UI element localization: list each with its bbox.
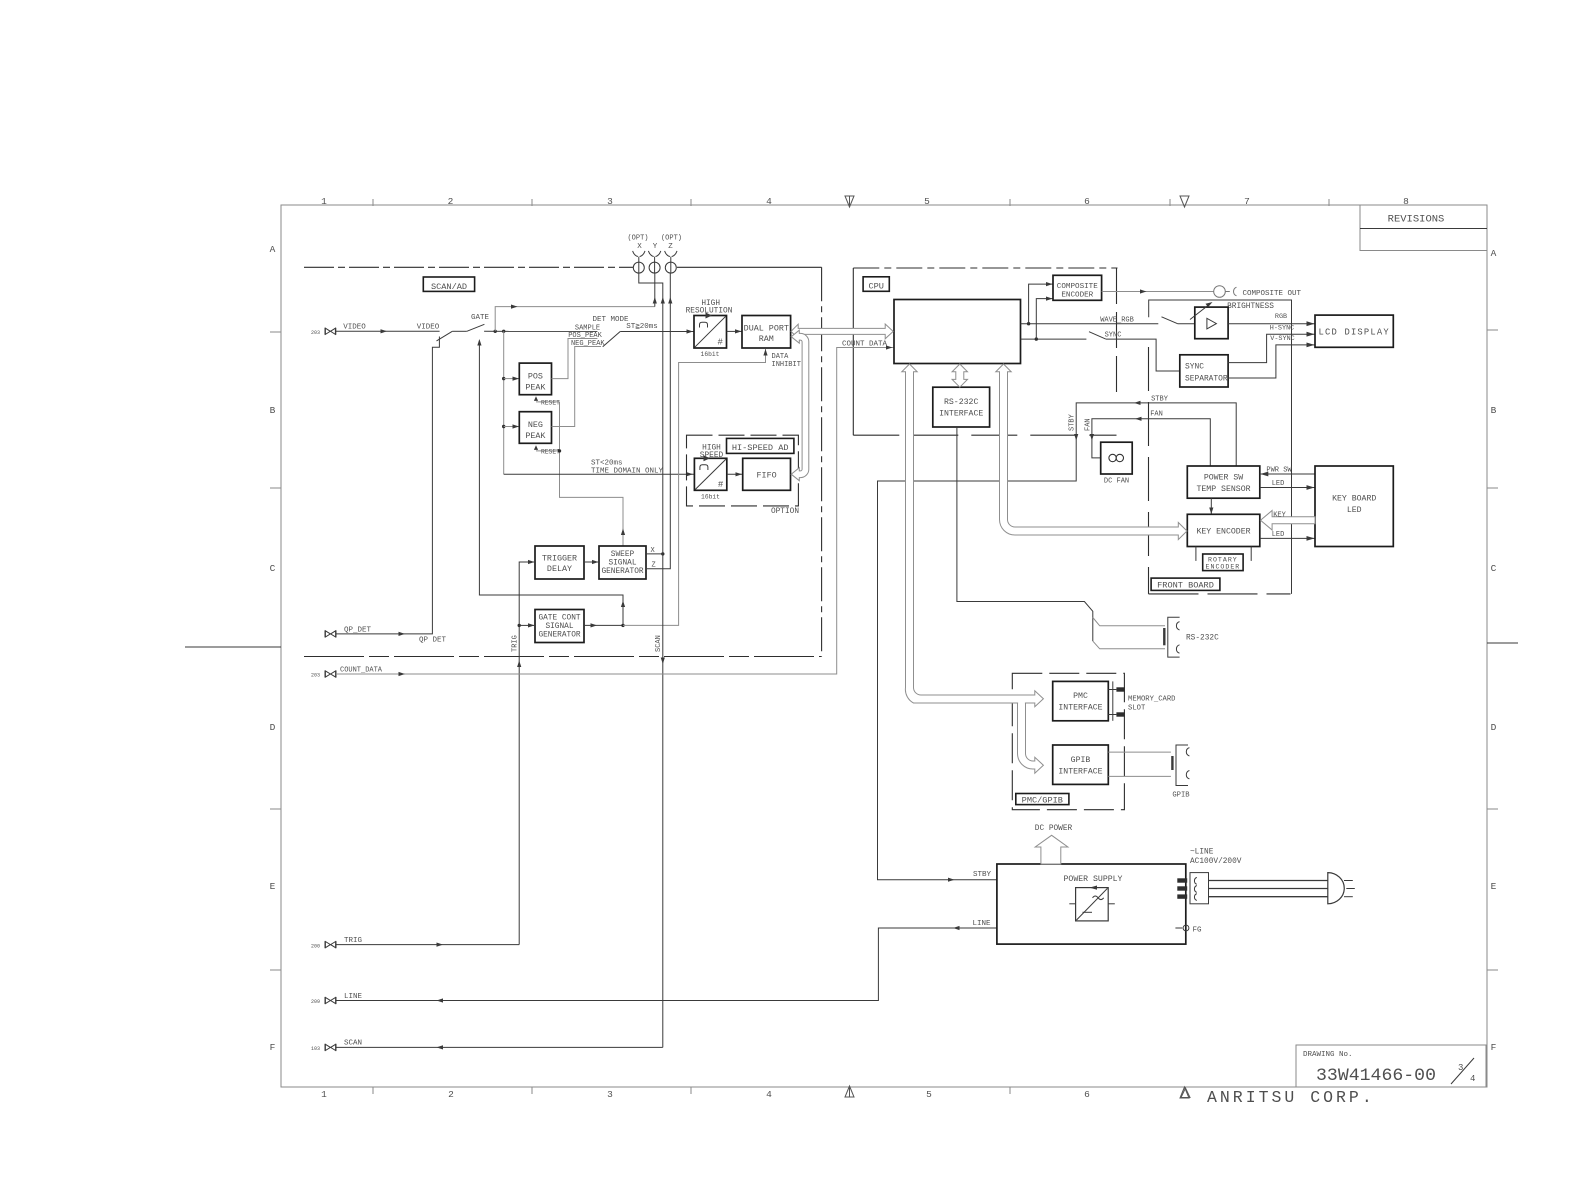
svg-text:LED: LED <box>1272 480 1285 488</box>
switch S4 WAVE_RGB <box>1162 317 1178 324</box>
svg-text:SEPARATOR: SEPARATOR <box>1185 374 1228 383</box>
svg-text:C: C <box>1491 563 1497 574</box>
switch S1 video/qp-det blade <box>437 331 453 341</box>
svg-text:4: 4 <box>766 196 772 207</box>
svg-text:3: 3 <box>607 1089 613 1100</box>
memory card slot pad upper <box>1116 687 1125 691</box>
block video amp <box>1195 307 1228 339</box>
svg-text:GPIB: GPIB <box>1172 792 1190 800</box>
drawing frame border <box>281 205 1487 1087</box>
block KEY BOARD LED <box>1315 466 1393 547</box>
svg-text:DELAY: DELAY <box>547 564 572 574</box>
svg-text:Z: Z <box>652 562 656 570</box>
svg-text:NEG_PEAK: NEG_PEAK <box>571 340 605 348</box>
svg-text:QP DET: QP DET <box>419 637 447 645</box>
frame row ticks right <box>1487 330 1498 488</box>
wire data inhibit <box>623 349 766 625</box>
svg-text:RESET: RESET <box>541 399 560 406</box>
OPTION region boundary <box>687 435 799 506</box>
wire switch link <box>452 330 467 332</box>
connector J LINE <box>311 997 336 1005</box>
frame column numbers bottom <box>321 1089 1090 1100</box>
wire detector main line <box>484 330 597 332</box>
svg-text:COMPOSITE: COMPOSITE <box>1057 283 1098 291</box>
svg-text:POWER SW: POWER SW <box>1204 474 1243 483</box>
block PMC INTERFACE <box>1053 681 1109 720</box>
title block <box>1296 1045 1486 1087</box>
PMC/GPIB region boundary <box>1012 673 1124 809</box>
svg-text:MEMORY_CARD: MEMORY_CARD <box>1128 696 1175 704</box>
wire X output <box>646 553 663 555</box>
hollow arrow KEY keyboard to key encoder <box>1261 511 1316 531</box>
svg-text:DRAWING No.: DRAWING No. <box>1303 1051 1353 1059</box>
svg-text:GENERATOR: GENERATOR <box>538 631 580 639</box>
svg-text:SWEEP: SWEEP <box>611 551 635 559</box>
AC inlet pads <box>1177 878 1187 882</box>
wire time domain line <box>504 473 694 475</box>
wire composite out <box>1102 291 1214 293</box>
AC-DC converter symbol <box>1069 886 1115 921</box>
svg-text:E: E <box>1491 881 1497 892</box>
memory card slot stub lower <box>1108 714 1116 716</box>
wire H-SYNC <box>1228 334 1315 362</box>
SCAN/AD region boundary right <box>821 267 823 656</box>
svg-text:PMC: PMC <box>1073 692 1088 701</box>
block CPU <box>894 300 1021 364</box>
wire X/SCAN riser <box>639 273 663 1047</box>
wire RS-232C to connector <box>957 427 1093 641</box>
wire to composite encoder input1 <box>1029 284 1053 324</box>
svg-text:REVISIONS: REVISIONS <box>1388 214 1445 226</box>
connector J TRIG <box>311 941 336 949</box>
FG terminal <box>1175 925 1202 934</box>
brightness control circuit <box>1149 300 1292 594</box>
connector Y <box>648 243 660 273</box>
svg-text:RESET: RESET <box>541 448 560 455</box>
SCAN/AD region boundary top <box>304 266 633 268</box>
svg-text:TIME DOMAIN ONLY: TIME DOMAIN ONLY <box>591 467 664 475</box>
block DUAL PORT RAM <box>742 316 791 349</box>
svg-text:VIDEO: VIDEO <box>417 323 440 331</box>
bus CPU to PMC/GPIB <box>902 364 1044 773</box>
svg-text:200: 200 <box>311 943 320 949</box>
frame column ticks top <box>373 199 1329 206</box>
switch S2 gate blade <box>467 324 485 331</box>
svg-text:TRIG: TRIG <box>512 635 520 652</box>
svg-text:COUNT DATA: COUNT DATA <box>842 340 888 348</box>
switch S3 det mode blade <box>603 332 621 347</box>
AC line wires <box>1209 881 1328 897</box>
wire detector select vertical <box>503 331 505 474</box>
wire gate cont output <box>584 624 623 626</box>
svg-text:(OPT): (OPT) <box>627 235 648 243</box>
svg-text:209: 209 <box>311 999 320 1005</box>
svg-text:D: D <box>270 722 276 733</box>
svg-text:H-SYNC: H-SYNC <box>1270 324 1294 332</box>
block KEY ENCODER <box>1187 514 1260 546</box>
svg-text:AC100V/200V: AC100V/200V <box>1190 858 1242 866</box>
svg-text:ENCODER: ENCODER <box>1061 292 1093 300</box>
frame row letters left <box>270 244 276 1053</box>
svg-text:F: F <box>1491 1042 1497 1053</box>
svg-text:ANRITSU CORP.: ANRITSU CORP. <box>1207 1088 1375 1107</box>
wire AD2 to FIFO <box>727 473 743 475</box>
CPU region boundary <box>852 268 854 435</box>
svg-text:FAN: FAN <box>1085 418 1093 431</box>
svg-text:F: F <box>270 1042 276 1053</box>
svg-text:SCAN/AD: SCAN/AD <box>431 282 467 292</box>
wire neg peak input <box>504 426 520 428</box>
node gate cont output junction <box>621 624 624 627</box>
frame fold mark bottom center <box>845 1086 854 1097</box>
svg-text:SPEED: SPEED <box>700 452 724 460</box>
svg-text:SYNC: SYNC <box>1105 332 1122 340</box>
wire trig to gate cont <box>519 624 535 626</box>
svg-text:KEY BOARD: KEY BOARD <box>1332 494 1376 503</box>
svg-text:1: 1 <box>321 196 327 207</box>
registration triangle by company name <box>1181 1088 1190 1098</box>
svg-text:COUNT_DATA: COUNT_DATA <box>340 666 383 674</box>
svg-text:RS-232C: RS-232C <box>1186 635 1219 643</box>
svg-text:SIGNAL: SIGNAL <box>545 623 573 631</box>
wire pos peak input <box>504 378 520 380</box>
node video junction <box>494 330 497 333</box>
block TRIGGER DELAY <box>535 546 584 579</box>
SCAN/AD section label box <box>423 277 474 292</box>
block FIFO <box>743 458 791 490</box>
svg-text:KEY: KEY <box>1273 511 1286 519</box>
block SYNC SEPARATOR <box>1180 355 1228 387</box>
wire AD1 input <box>620 331 694 333</box>
wire pos peak reset stub <box>536 401 560 403</box>
FRONT BOARD region boundary <box>1148 347 1150 594</box>
svg-text:CPU: CPU <box>868 281 883 291</box>
wire neg peak output to contact <box>552 347 602 427</box>
svg-text:HI-SPEED AD: HI-SPEED AD <box>732 443 789 453</box>
svg-text:OPTION: OPTION <box>771 508 799 516</box>
wire sync to separator <box>1106 339 1180 371</box>
CPU section label box <box>863 277 889 292</box>
svg-text:ST<20ms: ST<20ms <box>591 460 623 468</box>
svg-text:16bit: 16bit <box>701 494 720 501</box>
frame fold mark top right <box>1180 196 1189 207</box>
memory card slot bracket <box>1112 681 1114 720</box>
svg-text:SYNC: SYNC <box>1185 362 1204 371</box>
frame column numbers top <box>321 196 1409 207</box>
svg-text:DET MODE: DET MODE <box>592 316 629 324</box>
block SWEEP SIGNAL GENERATOR <box>599 546 646 579</box>
svg-text:PWR SW: PWR SW <box>1266 467 1292 475</box>
svg-text:INHIBIT: INHIBIT <box>772 361 801 369</box>
svg-text:ENCODER: ENCODER <box>1206 564 1241 571</box>
svg-text:103: 103 <box>311 1046 320 1052</box>
svg-text:STBY: STBY <box>973 871 992 879</box>
svg-text:A: A <box>270 244 276 255</box>
svg-text:SIGNAL: SIGNAL <box>608 559 636 567</box>
svg-text:FIFO: FIFO <box>757 471 777 481</box>
frame row letters right <box>1491 248 1497 1053</box>
svg-text:LINE: LINE <box>972 920 991 928</box>
block NEG PEAK <box>519 412 551 444</box>
block GPIB INTERFACE <box>1053 745 1109 784</box>
bus CPU to KEY ENCODER <box>996 364 1187 540</box>
node trig to gate cont <box>518 624 521 627</box>
revisions box <box>1360 205 1487 251</box>
node X scan junction <box>661 552 664 555</box>
svg-text:LINE: LINE <box>344 993 363 1001</box>
svg-text:STBY: STBY <box>1069 413 1077 431</box>
wire STBY distribution <box>878 403 1237 880</box>
svg-text:COMPOSITE OUT: COMPOSITE OUT <box>1243 290 1302 298</box>
svg-text:~LINE: ~LINE <box>1190 849 1214 857</box>
connector J COUNT_DATA <box>311 671 336 679</box>
svg-text:(OPT): (OPT) <box>661 235 682 243</box>
AC plug <box>1328 873 1355 904</box>
node wave rgb junction <box>1027 322 1030 325</box>
svg-text:5: 5 <box>924 196 930 207</box>
svg-text:TRIGGER: TRIGGER <box>542 554 577 564</box>
block LCD DISPLAY <box>1315 315 1393 347</box>
wire COUNT_DATA bus <box>336 348 894 675</box>
svg-text:INTERFACE: INTERFACE <box>939 410 983 419</box>
connector X option <box>627 235 648 274</box>
node neg peak tap <box>502 425 505 428</box>
svg-text:RESOLUTION: RESOLUTION <box>686 307 733 315</box>
wire SYNC from CPU <box>1021 338 1087 340</box>
svg-text:3: 3 <box>607 196 613 207</box>
wire GPIB lower <box>1108 775 1171 777</box>
wire QP_DET input <box>336 337 439 634</box>
frame row ticks left <box>270 332 281 488</box>
SCAN/AD region boundary bottom <box>304 656 822 658</box>
wire GPIB upper <box>1108 751 1171 753</box>
switch S5 SYNC <box>1089 332 1106 339</box>
node det junction <box>502 330 505 333</box>
wire switch to amp <box>1178 323 1195 325</box>
wire LED upper <box>1260 487 1315 489</box>
HI-SPEED AD label box <box>727 438 794 453</box>
svg-text:PEAK: PEAK <box>525 383 546 393</box>
svg-text:FAN: FAN <box>1150 410 1163 418</box>
wire V-SYNC <box>1228 345 1315 378</box>
svg-text:POS: POS <box>528 372 543 382</box>
connector J SCAN <box>311 1044 336 1052</box>
connector J QP_DET <box>325 630 336 637</box>
svg-text:D: D <box>1491 722 1497 733</box>
wire trigger delay to ssg <box>584 561 599 563</box>
bus CPU to DUAL PORT RAM <box>791 324 893 339</box>
svg-text:INTERFACE: INTERFACE <box>1058 704 1102 713</box>
svg-text:INTERFACE: INTERFACE <box>1058 767 1102 776</box>
svg-text:FG: FG <box>1193 926 1203 934</box>
svg-text:TEMP SENSOR: TEMP SENSOR <box>1196 485 1250 494</box>
svg-text:SCAN: SCAN <box>344 1040 362 1048</box>
node reset junction <box>558 449 561 452</box>
svg-text:QP_DET: QP_DET <box>344 627 372 635</box>
node pos peak tap <box>502 377 505 380</box>
svg-text:1: 1 <box>321 1089 327 1100</box>
wire neg peak reset stub <box>536 450 560 452</box>
memory card slot pad lower <box>1116 712 1125 716</box>
svg-text:203: 203 <box>311 673 320 679</box>
svg-text:203: 203 <box>311 330 320 336</box>
connector J VIDEO <box>311 328 336 336</box>
svg-text:Y: Y <box>653 243 658 251</box>
svg-text:GATE CONT: GATE CONT <box>538 614 580 622</box>
node sync junction <box>1035 337 1038 340</box>
block HIGH SPEED AD <box>694 455 726 490</box>
wire rs232 pair upper <box>1093 618 1165 626</box>
svg-text:POWER SUPPLY: POWER SUPPLY <box>1064 875 1123 884</box>
block HIGH RESOLUTION AD <box>694 313 727 349</box>
svg-text:16bit: 16bit <box>701 351 720 358</box>
wire LINE <box>336 928 997 1001</box>
PMC/GPIB label box <box>1016 794 1069 806</box>
rotary encoder links <box>1195 547 1197 561</box>
wire rs232 pair lower <box>1093 641 1165 649</box>
svg-text:X: X <box>637 243 642 251</box>
wire LED lower <box>1260 537 1315 539</box>
svg-text:DC POWER: DC POWER <box>1035 825 1073 833</box>
AC inlet bracket <box>1190 873 1209 904</box>
wire VIDEO input <box>336 330 440 332</box>
svg-text:5: 5 <box>926 1089 932 1100</box>
frame fold mark bottom right <box>1180 1087 1189 1098</box>
svg-text:LED: LED <box>1347 506 1362 515</box>
ROTARY ENCODER label box <box>1203 554 1243 571</box>
svg-text:GENERATOR: GENERATOR <box>601 568 643 576</box>
svg-text:STBY: STBY <box>1151 395 1169 403</box>
block POS PEAK <box>519 363 551 395</box>
svg-text:2: 2 <box>448 196 454 207</box>
memory card slot stub upper <box>1108 689 1116 691</box>
wire WAVE_RGB from CPU <box>1021 323 1159 325</box>
svg-text:RAM: RAM <box>759 334 774 344</box>
block COMPOSITE ENCODER <box>1053 275 1102 300</box>
svg-text:TRIG: TRIG <box>344 937 363 945</box>
svg-text:ST≧20ms: ST≧20ms <box>626 323 658 331</box>
svg-text:33W41466-00: 33W41466-00 <box>1316 1066 1436 1086</box>
svg-text:RS-232C: RS-232C <box>944 398 978 407</box>
frame fold mark top center <box>845 196 854 207</box>
svg-text:E: E <box>270 881 276 892</box>
frame column ticks bottom <box>373 1087 1010 1094</box>
wire temp sensor to key encoder <box>1210 498 1212 514</box>
block RS-232C INTERFACE <box>933 387 990 427</box>
svg-text:Z: Z <box>668 243 673 251</box>
svg-text:SCAN: SCAN <box>655 635 663 652</box>
svg-text:#: # <box>718 480 724 490</box>
svg-text:ROTARY: ROTARY <box>1208 556 1238 563</box>
wire TRIG riser <box>519 562 535 945</box>
svg-text:B: B <box>1491 405 1497 416</box>
block POWER SUPPLY <box>997 864 1186 944</box>
wire gate control <box>479 341 623 626</box>
svg-text:4: 4 <box>1470 1074 1475 1084</box>
svg-text:POS_PEAK: POS_PEAK <box>568 332 602 340</box>
wire FAN distribution <box>1092 419 1210 466</box>
svg-text:PMC/GPIB: PMC/GPIB <box>1022 796 1063 806</box>
svg-text:WAVE_RGB: WAVE_RGB <box>1100 317 1134 325</box>
svg-text:VIDEO: VIDEO <box>343 323 366 331</box>
FRONT BOARD label box <box>1151 578 1220 591</box>
block DC FAN <box>1101 442 1133 474</box>
svg-text:RGB: RGB <box>1275 313 1287 321</box>
svg-text:SLOT: SLOT <box>1128 705 1146 713</box>
wire AD1 to RAM <box>727 330 743 332</box>
connector RS-232C <box>1164 617 1179 657</box>
svg-text:V-SYNC: V-SYNC <box>1270 335 1294 343</box>
svg-text:BRIGHTNESS: BRIGHTNESS <box>1227 303 1274 311</box>
wire Z output <box>646 273 670 569</box>
connector GPIB <box>1172 745 1189 786</box>
svg-text:C: C <box>270 563 276 574</box>
wire TRIG input <box>336 944 519 946</box>
svg-text:FRONT BOARD: FRONT BOARD <box>1157 581 1214 591</box>
svg-text:GATE: GATE <box>471 314 490 322</box>
block GATE CONT SIGNAL GENERATOR <box>535 610 584 643</box>
svg-text:2: 2 <box>448 1089 454 1100</box>
wire SCAN output run <box>336 1046 663 1048</box>
svg-text:LCD DISPLAY: LCD DISPLAY <box>1319 327 1390 337</box>
svg-text:6: 6 <box>1084 1089 1090 1100</box>
svg-text:DATA: DATA <box>772 353 790 361</box>
svg-text:A: A <box>1491 248 1497 259</box>
hollow arrow DC POWER <box>1035 835 1068 864</box>
svg-text:DC FAN: DC FAN <box>1104 478 1129 486</box>
connector COMPOSITE OUT <box>1214 286 1237 298</box>
svg-text:6: 6 <box>1084 196 1090 207</box>
brightness pot arrow <box>1190 304 1211 320</box>
svg-text:NEG: NEG <box>528 420 543 430</box>
bus FIFO to RAM (curved) <box>791 330 809 481</box>
svg-text:KEY ENCODER: KEY ENCODER <box>1196 528 1250 537</box>
wire pos peak output to contact <box>552 339 598 379</box>
block POWER SW TEMP SENSOR <box>1187 466 1260 498</box>
svg-text:LED: LED <box>1272 531 1285 539</box>
wire PWR SW <box>1260 473 1315 475</box>
wire reset bus <box>560 402 624 546</box>
svg-text:7: 7 <box>1244 196 1250 207</box>
wire video to Y axis <box>495 307 655 332</box>
svg-text:PEAK: PEAK <box>525 431 546 441</box>
connector Z option <box>661 235 682 274</box>
svg-text:4: 4 <box>766 1089 772 1100</box>
svg-text:DUAL PORT: DUAL PORT <box>744 324 789 334</box>
wire RGB to LCD <box>1228 323 1315 325</box>
svg-text:GPIB: GPIB <box>1071 756 1091 765</box>
bus CPU to RS-232C interface <box>952 364 967 387</box>
wire to composite encoder input2 <box>1036 299 1053 340</box>
svg-text:B: B <box>270 405 276 416</box>
wire Y connector riser <box>654 273 656 306</box>
svg-text:#: # <box>718 338 724 348</box>
